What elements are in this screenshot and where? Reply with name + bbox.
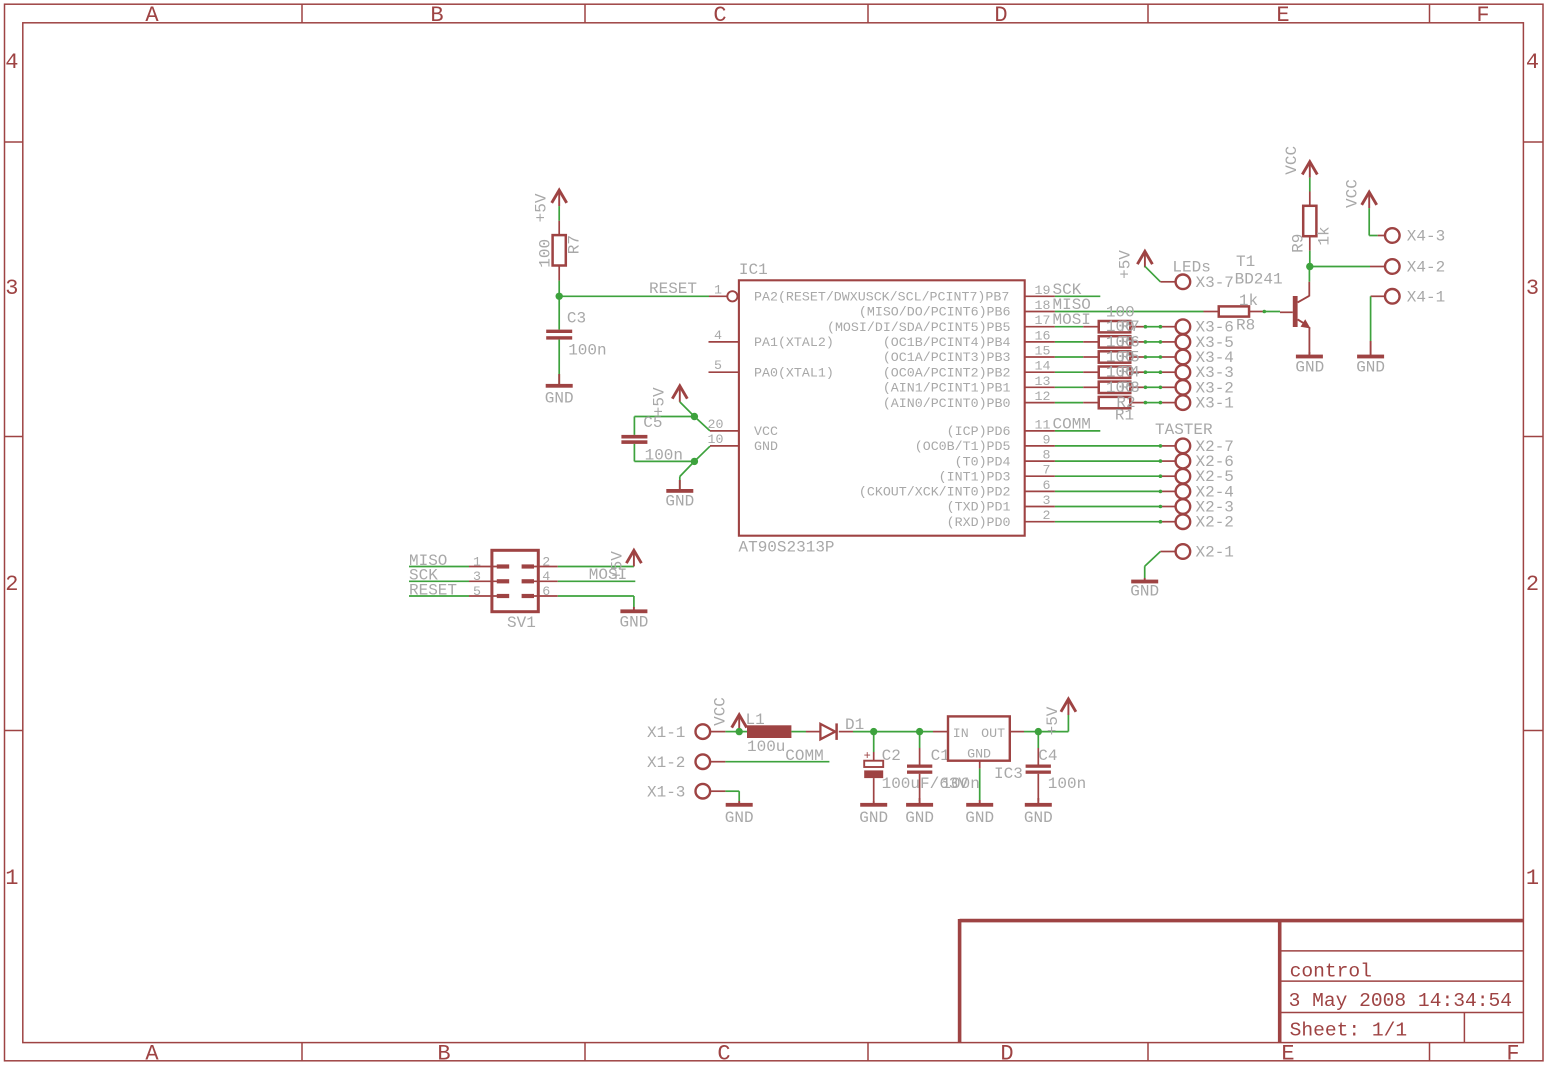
wire R8 to T1 base xyxy=(1249,311,1264,313)
wire IC to pad X2-5 xyxy=(1055,475,1161,477)
wire X1-1 to junction xyxy=(710,731,725,733)
pin 10 GND xyxy=(710,445,739,447)
wire C4 to ground xyxy=(1037,774,1039,801)
svg-text:A: A xyxy=(145,1041,159,1066)
svg-text:5: 5 xyxy=(473,584,481,599)
svg-text:Sheet: 1/1: Sheet: 1/1 xyxy=(1290,1019,1408,1041)
wire resistor to pad X3-6 xyxy=(1130,326,1145,328)
wire pin to resistor row 5 xyxy=(1055,386,1083,388)
svg-text:D: D xyxy=(994,3,1007,28)
svg-text:C: C xyxy=(713,3,726,28)
svg-text:VCC: VCC xyxy=(712,697,730,726)
wire C3 to ground xyxy=(558,340,560,384)
frame column dividers bottom xyxy=(301,1043,303,1061)
svg-text:X1-2: X1-2 xyxy=(647,754,685,772)
wire T1 collector to junction xyxy=(1308,282,1310,297)
svg-text:(MOSI/DI/SDA/PCINT5)PB5: (MOSI/DI/SDA/PCINT5)PB5 xyxy=(827,320,1011,335)
wire IC to pad X2-7 xyxy=(1055,445,1161,447)
wire junction to ground xyxy=(680,461,695,476)
net label SCK on pin 19 xyxy=(1055,295,1100,297)
svg-text:C5: C5 xyxy=(643,414,662,432)
svg-text:SV1: SV1 xyxy=(507,614,536,632)
+5V supply symbol above C5 xyxy=(672,386,687,399)
wire resistor to pad X3-2 xyxy=(1130,386,1145,388)
connector pad X2-7 xyxy=(1176,439,1191,454)
svg-text:(OC0B/T1)PD5: (OC0B/T1)PD5 xyxy=(915,439,1011,454)
wire resistor to pad X3-5 xyxy=(1130,341,1145,343)
svg-text:14: 14 xyxy=(1035,359,1051,374)
title block row lines xyxy=(1280,950,1524,952)
wire IC to pad X2-4 xyxy=(1055,490,1161,492)
wire IC to pad X2-2 xyxy=(1055,521,1161,523)
svg-text:X1-3: X1-3 xyxy=(647,784,685,802)
svg-text:(OC1B/PCINT4)PB4: (OC1B/PCINT4)PB4 xyxy=(883,335,1011,350)
sv1 pin row 3/4 xyxy=(469,580,497,582)
svg-text:VCC: VCC xyxy=(754,424,778,439)
svg-text:100n: 100n xyxy=(1048,775,1086,793)
wire X1-3 to ground xyxy=(710,790,725,792)
wire R7 to junction xyxy=(558,266,560,281)
net label MISO xyxy=(409,566,469,568)
svg-text:1: 1 xyxy=(1526,866,1539,891)
node junction C2 xyxy=(870,728,877,735)
sv1 pin row 5/6 xyxy=(469,595,497,597)
svg-text:(ICP)PD6: (ICP)PD6 xyxy=(947,424,1011,439)
svg-text:C4: C4 xyxy=(1038,747,1057,765)
svg-text:VCC: VCC xyxy=(1283,146,1301,175)
svg-text:10: 10 xyxy=(708,432,724,447)
svg-text:BD241: BD241 xyxy=(1235,270,1283,288)
wire junction C2 to junction C1 xyxy=(874,731,920,733)
svg-text:6: 6 xyxy=(1043,478,1051,493)
connector pad X2-5 xyxy=(1176,469,1191,484)
svg-text:3: 3 xyxy=(1043,493,1051,508)
svg-text:(T0)PD4: (T0)PD4 xyxy=(955,454,1011,469)
ground below C3 xyxy=(558,374,560,386)
svg-text:X1-1: X1-1 xyxy=(647,724,685,742)
connector SV1 body xyxy=(492,550,538,611)
ground below C4 xyxy=(1037,798,1039,805)
svg-text:(INT1)PD3: (INT1)PD3 xyxy=(939,469,1011,484)
wire resistor to pad X3-4 xyxy=(1130,356,1145,358)
pin 4 PA1 xyxy=(709,341,739,343)
wire X4-1 to ground xyxy=(1371,295,1385,297)
capacitor C2 100uF electrolytic xyxy=(873,732,875,752)
net label RESET xyxy=(409,595,469,597)
svg-text:TASTER: TASTER xyxy=(1155,421,1213,439)
svg-text:T1: T1 xyxy=(1236,253,1255,271)
resistor R1 network element R5 100 xyxy=(1099,351,1131,362)
svg-text:4: 4 xyxy=(5,50,18,75)
wire SV1 pin6 to ground xyxy=(558,595,634,597)
svg-text:(RXD)PD0: (RXD)PD0 xyxy=(947,515,1011,530)
ground below IC3 xyxy=(979,800,981,805)
wire junction to X4-2 xyxy=(1310,266,1370,268)
svg-text:X3-1: X3-1 xyxy=(1196,395,1234,413)
svg-text:IN: IN xyxy=(953,726,969,741)
svg-text:R9: R9 xyxy=(1290,234,1308,253)
node junction C1 xyxy=(916,728,923,735)
svg-text:3: 3 xyxy=(473,569,481,584)
net label SCK xyxy=(409,580,469,582)
svg-text:GND: GND xyxy=(1024,809,1053,827)
wire X2-1 to ground xyxy=(1160,551,1175,553)
net label MISO wire pin 18 to R8 xyxy=(1055,311,1204,313)
svg-text:F: F xyxy=(1506,1041,1519,1066)
net label COMM on pin 11 xyxy=(1055,430,1100,432)
ic IC1 body xyxy=(739,280,1025,535)
ground below C2 xyxy=(873,801,875,805)
svg-text:GND: GND xyxy=(665,492,694,510)
transistor T1 BD241 xyxy=(1280,311,1293,313)
svg-text:IC1: IC1 xyxy=(739,261,768,279)
svg-text:X4-3: X4-3 xyxy=(1407,228,1445,246)
svg-text:100: 100 xyxy=(536,239,554,268)
capacitor C1 100n xyxy=(919,732,921,748)
svg-text:C2: C2 xyxy=(882,747,901,765)
svg-text:2: 2 xyxy=(542,554,550,569)
wire pin to resistor row 6 xyxy=(1055,402,1083,404)
svg-text:GND: GND xyxy=(965,809,994,827)
wire VCC to X4-3 xyxy=(1368,208,1370,235)
wire pin to resistor row 2 xyxy=(1055,341,1083,343)
svg-text:3: 3 xyxy=(5,276,18,301)
svg-text:19: 19 xyxy=(1035,283,1051,298)
resistor R1 network element R6 100 xyxy=(1099,336,1131,347)
wire pin to resistor row 4 xyxy=(1055,371,1083,373)
svg-text:1k: 1k xyxy=(1239,292,1258,310)
ground below X2-1 xyxy=(1144,578,1146,582)
svg-text:20: 20 xyxy=(708,417,724,432)
ground below T1 xyxy=(1308,352,1310,357)
svg-text:(MISO/DO/PCINT6)PB6: (MISO/DO/PCINT6)PB6 xyxy=(859,305,1011,320)
wire junction to IC pin 10 xyxy=(694,446,710,461)
ground below X1-3 xyxy=(738,801,740,805)
svg-text:C: C xyxy=(717,1041,730,1066)
svg-text:+5V: +5V xyxy=(533,193,551,222)
wire pin to resistor row 3 xyxy=(1055,356,1083,358)
wire T1 emitter to ground xyxy=(1308,327,1310,354)
connector pad X2-6 xyxy=(1176,454,1191,469)
svg-text:E: E xyxy=(1281,1041,1294,1066)
svg-text:X2-1: X2-1 xyxy=(1196,544,1234,562)
svg-text:GND: GND xyxy=(754,439,778,454)
node junction R7/C3/RESET xyxy=(556,293,563,300)
wire pin to resistor row 1 xyxy=(1055,326,1083,328)
svg-text:+5V: +5V xyxy=(651,387,669,416)
svg-text:B: B xyxy=(430,3,443,28)
svg-text:A: A xyxy=(145,3,159,28)
svg-text:OUT: OUT xyxy=(981,726,1005,741)
wire L1 to D1 xyxy=(791,731,806,733)
pin 5 PA0 xyxy=(709,371,739,373)
ic IC3 voltage regulator body xyxy=(948,716,1010,760)
wire IC to pad X2-6 xyxy=(1055,460,1161,462)
svg-text:3: 3 xyxy=(1526,276,1539,301)
svg-text:7: 7 xyxy=(1043,463,1051,478)
svg-text:R8: R8 xyxy=(1236,317,1255,335)
connector pad X3-7 xyxy=(1176,275,1191,290)
connector pad X3-1 xyxy=(1176,395,1191,410)
wire +5V diagonal to junction xyxy=(680,402,695,417)
wire junction C1 to IC3 xyxy=(920,731,933,733)
svg-text:COMM: COMM xyxy=(1053,415,1091,433)
svg-text:12: 12 xyxy=(1035,389,1051,404)
svg-text:2: 2 xyxy=(5,572,18,597)
svg-text:4: 4 xyxy=(714,328,722,343)
svg-text:18: 18 xyxy=(1035,298,1051,313)
node junction C5/GND/pin10 xyxy=(691,458,698,465)
svg-text:X4-2: X4-2 xyxy=(1407,259,1445,277)
inductor L1 100u xyxy=(747,725,791,738)
ground below C1 xyxy=(919,798,921,805)
frame row dividers right xyxy=(1523,141,1543,143)
capacitor C5 xyxy=(621,435,647,439)
capacitor C3 xyxy=(558,296,560,329)
svg-text:5: 5 xyxy=(714,358,722,373)
svg-text:MOSI: MOSI xyxy=(589,566,627,584)
wire IC3 ground pin xyxy=(979,761,981,769)
svg-text:R1: R1 xyxy=(1115,406,1134,424)
svg-text:VCC: VCC xyxy=(1344,179,1362,208)
wire D1 to junction C2 xyxy=(839,731,853,733)
svg-text:(CKOUT/XCK/INT0)PD2: (CKOUT/XCK/INT0)PD2 xyxy=(859,485,1011,500)
resistor R7 xyxy=(553,235,566,265)
svg-text:X2-2: X2-2 xyxy=(1196,514,1234,532)
wire resistor to pad X3-3 xyxy=(1130,371,1145,373)
sv1 pin row 1/2 xyxy=(469,566,497,568)
svg-text:GND: GND xyxy=(1356,359,1385,377)
svg-text:GND: GND xyxy=(1130,583,1159,601)
svg-text:2: 2 xyxy=(1043,508,1051,523)
+5V supply symbol near X3-7 xyxy=(1137,251,1152,264)
wire junction to IC pin 20 xyxy=(694,417,710,431)
VCC supply symbol at X1-1 xyxy=(732,715,747,728)
frame column dividers top xyxy=(301,4,303,23)
svg-text:PA0(XTAL1): PA0(XTAL1) xyxy=(754,365,834,380)
node junction C4 xyxy=(1035,728,1042,735)
svg-text:3 May 2008 14:34:54: 3 May 2008 14:34:54 xyxy=(1289,990,1512,1012)
resistor R9 1k xyxy=(1303,206,1316,236)
svg-text:B: B xyxy=(437,1041,450,1066)
frame row dividers left xyxy=(5,141,23,143)
svg-text:PA1(XTAL2): PA1(XTAL2) xyxy=(754,335,834,350)
+5V supply symbol at SV1 xyxy=(626,550,641,563)
svg-text:GND: GND xyxy=(1295,359,1324,377)
connector pad X1-2 xyxy=(696,754,711,769)
svg-text:13: 13 xyxy=(1035,374,1051,389)
svg-text:17: 17 xyxy=(1035,313,1051,328)
resistor R1 network element R2 100 xyxy=(1099,397,1131,408)
svg-text:AT90S2313P: AT90S2313P xyxy=(739,538,835,556)
capacitor C4 100n xyxy=(1037,732,1039,748)
svg-text:4: 4 xyxy=(542,569,550,584)
svg-text:(AIN1/PCINT1)PB1: (AIN1/PCINT1)PB1 xyxy=(883,381,1011,396)
resistor R1 network element R3 100 xyxy=(1099,382,1131,393)
svg-text:11: 11 xyxy=(1035,417,1051,432)
connector pad X2-1 xyxy=(1176,544,1191,559)
svg-text:RESET: RESET xyxy=(649,280,697,298)
svg-text:R7: R7 xyxy=(566,235,584,254)
VCC supply symbol above R9 xyxy=(1302,162,1317,175)
svg-text:F: F xyxy=(1476,3,1489,28)
svg-text:1: 1 xyxy=(714,282,722,297)
node junction VCC/C5 xyxy=(691,413,698,420)
svg-text:X3-7: X3-7 xyxy=(1196,274,1234,292)
svg-text:1: 1 xyxy=(473,554,481,569)
resistor R8 1k xyxy=(1204,311,1219,313)
ground below X4-1 xyxy=(1370,341,1372,357)
svg-text:GND: GND xyxy=(905,809,934,827)
connector pad X2-2 xyxy=(1176,514,1191,529)
svg-text:1k: 1k xyxy=(1315,226,1333,245)
svg-text:+5V: +5V xyxy=(1117,250,1135,279)
wire R9 to junction xyxy=(1309,236,1311,251)
svg-text:control: control xyxy=(1290,960,1372,982)
svg-text:+5V: +5V xyxy=(1044,706,1062,735)
net label COMM wire from X1-2 xyxy=(710,761,725,763)
node junction R9/T1/X4-2 xyxy=(1306,263,1313,270)
+5V supply symbol at IC3 output xyxy=(1061,699,1076,712)
svg-text:(OC0A/PCINT2)PB2: (OC0A/PCINT2)PB2 xyxy=(883,365,1011,380)
connector pad X3-4 xyxy=(1176,350,1191,365)
svg-text:GND: GND xyxy=(967,746,991,761)
svg-text:RESET: RESET xyxy=(409,581,457,599)
svg-text:1: 1 xyxy=(5,866,18,891)
connector pad X4-3 xyxy=(1385,228,1400,243)
svg-text:D: D xyxy=(1000,1041,1013,1066)
connector pad X3-3 xyxy=(1176,365,1191,380)
connector pad X3-5 xyxy=(1176,335,1191,350)
wire +5V to R7 xyxy=(558,206,560,221)
connector pad X2-4 xyxy=(1176,484,1191,499)
svg-text:(AIN0/PCINT0)PB0: (AIN0/PCINT0)PB0 xyxy=(883,396,1011,411)
wire IC3 out to +5V xyxy=(1010,731,1024,733)
wire VCC to R9 xyxy=(1309,178,1311,192)
connector pad X1-1 xyxy=(696,724,711,739)
svg-text:L1: L1 xyxy=(746,711,765,729)
wire C1 to ground xyxy=(919,774,921,801)
svg-text:16: 16 xyxy=(1035,328,1051,343)
connector pad X4-1 xyxy=(1385,289,1400,304)
pin 20 VCC xyxy=(710,430,739,432)
wire +5V to X3-7 xyxy=(1145,266,1161,282)
svg-text:100n: 100n xyxy=(941,775,979,793)
wire RESET net xyxy=(559,295,709,297)
svg-text:6: 6 xyxy=(542,584,550,599)
ic IC1 right pin stubs xyxy=(1025,295,1055,297)
svg-text:GND: GND xyxy=(725,809,754,827)
svg-text:GND: GND xyxy=(859,809,888,827)
connector pad X1-3 xyxy=(696,784,711,799)
svg-text:100u: 100u xyxy=(747,738,785,756)
node junction X1-1/VCC/L1 xyxy=(736,728,743,735)
svg-text:2: 2 xyxy=(1526,572,1539,597)
svg-text:15: 15 xyxy=(1035,344,1051,359)
wire SV1 pin4 MOSI xyxy=(558,580,636,582)
svg-text:100n: 100n xyxy=(568,341,606,359)
svg-text:9: 9 xyxy=(1043,432,1051,447)
VCC supply symbol above X4-3 xyxy=(1362,192,1377,205)
svg-text:GND: GND xyxy=(620,614,649,632)
connector pad X2-3 xyxy=(1176,499,1191,514)
wire SV1 pin2 to +5V xyxy=(558,566,634,568)
svg-text:GND: GND xyxy=(545,390,574,408)
svg-text:E: E xyxy=(1276,3,1289,28)
svg-text:8: 8 xyxy=(1043,448,1051,463)
wire IC to pad X2-3 xyxy=(1055,506,1161,508)
resistor R1 network element R7 100 xyxy=(1099,321,1131,332)
svg-text:COMM: COMM xyxy=(785,747,823,765)
svg-text:C3: C3 xyxy=(567,310,586,328)
title block outline xyxy=(960,919,1524,923)
svg-text:(OC1A/PCINT3)PB3: (OC1A/PCINT3)PB3 xyxy=(883,350,1011,365)
+5V supply symbol above R7 xyxy=(552,190,567,203)
wire resistor to pad X3-1 xyxy=(1130,402,1145,404)
connector pad X3-2 xyxy=(1176,380,1191,395)
connector pad X3-6 xyxy=(1176,319,1191,334)
ground below C5 xyxy=(679,480,681,491)
svg-text:PA2(RESET/DWXUSCK/SCL/PCINT7)P: PA2(RESET/DWXUSCK/SCL/PCINT7)PB7 xyxy=(754,290,1009,305)
connector pad X4-2 xyxy=(1385,259,1400,274)
wire junction to C5 top xyxy=(634,416,694,418)
svg-text:X4-1: X4-1 xyxy=(1407,288,1445,306)
wire junction to L1 xyxy=(739,731,747,733)
svg-text:(TXD)PD1: (TXD)PD1 xyxy=(947,500,1011,515)
svg-text:IC3: IC3 xyxy=(994,765,1023,783)
resistor R1 network element R4 100 xyxy=(1099,367,1131,378)
svg-text:+: + xyxy=(864,749,871,763)
wire C2 to ground xyxy=(873,778,875,801)
diode D1 xyxy=(820,724,835,739)
ground below SV1 xyxy=(633,607,635,611)
wire C5 bottom to junction xyxy=(633,444,635,462)
svg-text:4: 4 xyxy=(1526,50,1539,75)
pin 1 PA2 with inversion bubble xyxy=(709,295,727,297)
